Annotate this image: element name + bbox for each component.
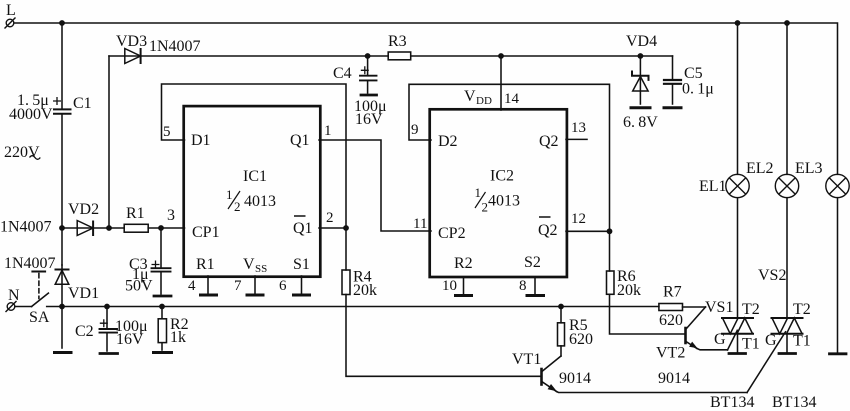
svg-text:DD: DD <box>476 95 492 107</box>
svg-text:0. 1μ: 0. 1μ <box>682 81 714 98</box>
svg-text:T1: T1 <box>742 336 760 353</box>
svg-text:SA: SA <box>29 309 50 326</box>
svg-text:CP2: CP2 <box>438 225 466 242</box>
svg-text:VS2: VS2 <box>758 267 786 284</box>
svg-text:1: 1 <box>324 123 332 139</box>
svg-text:6. 8V: 6. 8V <box>623 114 658 131</box>
svg-text:9014: 9014 <box>559 370 591 387</box>
svg-text:VD1: VD1 <box>68 285 99 302</box>
svg-text:11: 11 <box>413 216 427 232</box>
svg-text:12: 12 <box>571 211 586 227</box>
svg-text:VT2: VT2 <box>656 345 685 362</box>
svg-text:D1: D1 <box>191 132 211 149</box>
svg-text:10: 10 <box>442 278 457 294</box>
svg-text:EL3: EL3 <box>795 160 823 177</box>
svg-text:G: G <box>714 331 726 348</box>
svg-text:1N4007: 1N4007 <box>0 219 52 236</box>
svg-text:1N4007: 1N4007 <box>149 38 201 55</box>
svg-text:9014: 9014 <box>658 370 690 387</box>
svg-text:1k: 1k <box>170 329 186 346</box>
svg-text:BT134: BT134 <box>710 394 754 411</box>
svg-text:S1: S1 <box>293 256 310 273</box>
svg-text:VD2: VD2 <box>68 201 99 218</box>
svg-text:C2: C2 <box>75 323 94 340</box>
svg-text:Q2: Q2 <box>539 133 559 150</box>
svg-text:9: 9 <box>411 122 419 138</box>
svg-text:2: 2 <box>326 210 334 226</box>
svg-text:R3: R3 <box>388 33 407 50</box>
svg-text:620: 620 <box>569 331 593 348</box>
svg-text:20k: 20k <box>617 282 641 299</box>
svg-text:Q1: Q1 <box>293 220 313 237</box>
svg-text:VD3: VD3 <box>116 33 147 50</box>
svg-text:T2: T2 <box>793 301 811 318</box>
svg-text:VS1: VS1 <box>705 299 733 316</box>
svg-text:R1: R1 <box>126 205 145 222</box>
svg-text:14: 14 <box>504 91 520 107</box>
svg-text:16V: 16V <box>116 331 144 348</box>
svg-text:T2: T2 <box>742 301 760 318</box>
svg-text:EL1: EL1 <box>699 178 727 195</box>
svg-text:2: 2 <box>234 199 241 214</box>
svg-text:C5: C5 <box>684 65 703 82</box>
svg-text:BT134: BT134 <box>772 394 816 411</box>
svg-text:CP1: CP1 <box>192 224 220 241</box>
svg-text:220V: 220V <box>4 144 40 161</box>
svg-text:C1: C1 <box>73 95 92 112</box>
svg-text:D2: D2 <box>438 133 458 150</box>
svg-text:R2: R2 <box>454 255 473 272</box>
svg-text:SS: SS <box>255 263 267 275</box>
svg-text:T1: T1 <box>793 333 811 350</box>
svg-text:R7: R7 <box>663 284 682 301</box>
svg-text:L: L <box>6 2 16 19</box>
svg-text:6: 6 <box>279 278 287 294</box>
svg-text:620: 620 <box>659 312 683 329</box>
svg-text:16V: 16V <box>355 111 383 128</box>
svg-text:R1: R1 <box>196 256 215 273</box>
svg-text:IC2: IC2 <box>490 168 514 185</box>
svg-text:1: 1 <box>475 185 482 200</box>
svg-text:3: 3 <box>167 207 175 224</box>
svg-text:50V: 50V <box>125 278 153 295</box>
svg-text:VD4: VD4 <box>626 33 657 50</box>
svg-text:VT1: VT1 <box>512 351 541 368</box>
svg-text:7: 7 <box>234 278 242 294</box>
svg-text:4013: 4013 <box>244 193 276 210</box>
svg-text:V: V <box>464 88 476 105</box>
svg-text:N: N <box>8 287 20 304</box>
svg-text:Q2: Q2 <box>538 222 558 239</box>
svg-text:C4: C4 <box>333 65 352 82</box>
svg-text:20k: 20k <box>353 282 377 299</box>
svg-text:1N4007: 1N4007 <box>4 255 56 272</box>
svg-text:4013: 4013 <box>488 193 520 210</box>
svg-text:Q1: Q1 <box>290 132 310 149</box>
svg-text:8: 8 <box>519 278 527 294</box>
svg-text:IC1: IC1 <box>243 168 267 185</box>
svg-text:1: 1 <box>226 187 233 202</box>
svg-text:4: 4 <box>188 278 196 294</box>
svg-text:EL2: EL2 <box>746 160 774 177</box>
svg-text:G: G <box>765 332 777 349</box>
svg-text:13: 13 <box>571 120 586 136</box>
svg-text:4000V: 4000V <box>9 106 53 123</box>
svg-text:S2: S2 <box>524 254 541 271</box>
svg-text:V: V <box>243 256 255 273</box>
svg-text:5: 5 <box>163 124 171 140</box>
